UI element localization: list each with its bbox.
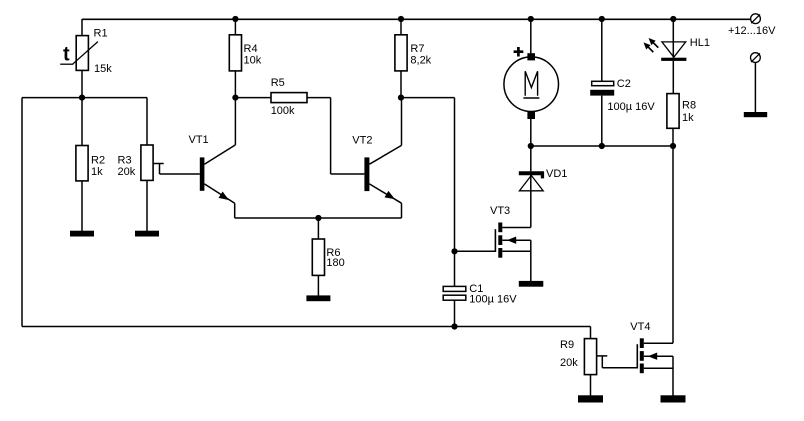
wire VD1 top bbox=[530, 146, 532, 171]
resistor R4 body bbox=[229, 35, 241, 71]
wire VT1 collector diagonal bbox=[204, 145, 235, 164]
terminal ground circle bbox=[751, 53, 761, 63]
wire VD1 bottom to VT3 drain bbox=[530, 173, 532, 228]
wire VT1 emitter vertical bbox=[234, 203, 236, 218]
node emitters R6 bbox=[315, 215, 321, 221]
svg-text:R8: R8 bbox=[682, 100, 696, 112]
transistor VT4 channel bottom segment bbox=[640, 364, 644, 374]
wire VT4 substrate stub bbox=[644, 355, 673, 357]
wire VT3 drain stub bbox=[502, 227, 531, 229]
resistor R5 body bbox=[271, 93, 307, 103]
svg-text:1k: 1k bbox=[91, 166, 103, 178]
svg-text:VT3: VT3 bbox=[490, 205, 510, 217]
node R7 top rail bbox=[398, 16, 404, 22]
wire VT2 emitter vertical bbox=[401, 203, 403, 218]
wire ground terminal lead bbox=[754, 63, 756, 113]
svg-text:t: t bbox=[63, 44, 70, 66]
LED HL1 emission arrow lower bbox=[644, 42, 654, 52]
svg-text:+12...16V: +12...16V bbox=[728, 25, 776, 37]
wire VT2 emitter diagonal bbox=[369, 184, 401, 203]
transistor VT1 base bar bbox=[200, 157, 205, 190]
wire R8 bottom bbox=[672, 128, 674, 146]
wire R9 wiper to VT4 gate bbox=[602, 367, 638, 369]
wire R6 top bbox=[317, 218, 319, 239]
transistor VT3 substrate arrow bbox=[507, 237, 516, 244]
ground VT4 source bbox=[661, 395, 686, 402]
svg-text:20k: 20k bbox=[560, 357, 578, 369]
capacitor C1 bottom plate bbox=[443, 295, 466, 300]
capacitor C2 top plate (positive) bbox=[592, 81, 614, 85]
wire emitters common line bbox=[235, 217, 402, 219]
motor M1 circle bbox=[504, 57, 559, 112]
wire bottom rail corner down to R9 bbox=[590, 327, 592, 339]
wire R5 right bbox=[307, 97, 331, 99]
wire VT3 source stub bbox=[502, 250, 531, 252]
wire R7 bottom bbox=[400, 71, 402, 98]
node R4 bottom bbox=[232, 95, 238, 101]
svg-text:C2: C2 bbox=[617, 78, 631, 90]
wire VT3 source down to ground bbox=[530, 240, 532, 281]
svg-text:R7: R7 bbox=[410, 43, 424, 55]
ground R3 bbox=[135, 231, 159, 237]
wire C2 top bbox=[601, 19, 603, 81]
wire VT1 base bbox=[160, 173, 200, 175]
wire HL1 top bbox=[672, 19, 674, 58]
svg-text:VT2: VT2 bbox=[352, 134, 372, 146]
R3 wiper tick bbox=[153, 163, 164, 165]
wire R5 down to VT2 base bbox=[330, 98, 332, 174]
terminal +12..16V circle bbox=[751, 14, 761, 24]
wire R9 top stub bbox=[590, 338, 592, 340]
wire R9 bottom bbox=[590, 375, 592, 396]
node R1 bottom divider bbox=[79, 95, 85, 101]
wire VT1 emitter diagonal bbox=[204, 184, 234, 203]
node HL1 top rail bbox=[670, 16, 676, 22]
wire VT4 drain vertical bbox=[672, 146, 674, 343]
svg-text:R3: R3 bbox=[118, 154, 132, 166]
resistor R8 body bbox=[667, 94, 679, 129]
resistor R7 body bbox=[395, 35, 407, 71]
ground VT3 source bbox=[519, 281, 544, 287]
transistor VT1 emitter arrow bbox=[219, 192, 230, 201]
node R7 bottom bbox=[398, 95, 404, 101]
diode VD1 zener cathode bar bbox=[519, 171, 544, 178]
LED HL1 cathode bar bbox=[661, 58, 686, 61]
svg-text:20k: 20k bbox=[118, 166, 136, 178]
svg-text:100µ 16V: 100µ 16V bbox=[469, 294, 517, 306]
wire R7 top bbox=[400, 19, 402, 35]
capacitor C2 bottom plate bbox=[590, 90, 614, 96]
wire left side vertical bbox=[21, 98, 23, 327]
wire R4 node to R5 left bbox=[235, 97, 271, 99]
wire mid rail motor to VT4 bbox=[531, 145, 673, 147]
R3 wiper drop bbox=[159, 164, 161, 175]
transistor VT4 channel mid segment bbox=[640, 351, 644, 361]
transistor VT2 base bar bbox=[364, 157, 369, 191]
wire R3 top bbox=[146, 98, 148, 145]
wire R1 bottom to node bbox=[81, 70, 83, 97]
resistor R6 body bbox=[312, 239, 324, 275]
svg-text:R4: R4 bbox=[244, 43, 258, 55]
wire VT1 collector vertical bbox=[234, 98, 236, 145]
svg-text:R5: R5 bbox=[271, 77, 285, 89]
wire motor top bbox=[530, 19, 532, 53]
svg-text:VT4: VT4 bbox=[630, 321, 650, 333]
wire R6 bottom bbox=[317, 275, 319, 295]
node motor top rail bbox=[528, 16, 534, 22]
wire R3 bottom bbox=[146, 180, 148, 231]
node C2 bottom rail bbox=[599, 143, 605, 149]
node motor bottom rail bbox=[528, 143, 534, 149]
svg-text:R1: R1 bbox=[94, 28, 108, 40]
wire VT4 drain stub bbox=[644, 342, 673, 344]
thermistor foot line bbox=[60, 63, 73, 65]
transistor VT3 channel bottom segment bbox=[498, 248, 502, 258]
motor polarity plus sign bbox=[514, 47, 524, 57]
wire HL1 to R8 bbox=[672, 61, 674, 94]
svg-text:100k: 100k bbox=[271, 105, 295, 117]
wire bottom long rail bbox=[22, 326, 591, 328]
svg-text:VD1: VD1 bbox=[546, 168, 567, 180]
node VT3 gate C1 bbox=[451, 248, 457, 254]
wire R2 bottom bbox=[81, 181, 83, 231]
wire VT3 gate connection bbox=[455, 250, 497, 252]
node C2 top rail bbox=[599, 16, 605, 22]
svg-text:8,2k: 8,2k bbox=[410, 54, 431, 66]
ground R6 bbox=[306, 295, 330, 301]
wire R4 bottom bbox=[234, 71, 236, 98]
svg-text:180: 180 bbox=[326, 257, 344, 269]
resistor R3 body (potentiometer) bbox=[141, 145, 153, 180]
transistor VT4 gate bar bbox=[636, 344, 638, 368]
transistor VT4 channel top segment bbox=[640, 338, 644, 348]
wire top supply rail bbox=[82, 18, 751, 20]
capacitor C1 top plate bbox=[443, 286, 466, 291]
svg-text:1k: 1k bbox=[682, 112, 694, 124]
ground R9 bbox=[578, 395, 603, 402]
wire VT2 collector diagonal bbox=[369, 145, 401, 164]
transistor VT3 channel mid segment bbox=[498, 235, 502, 245]
resistor R9 body (potentiometer) bbox=[584, 339, 596, 375]
R9 wiper drop bbox=[601, 356, 603, 368]
wire to VT2 base bbox=[331, 173, 365, 175]
svg-text:100µ 16V: 100µ 16V bbox=[607, 101, 655, 113]
R9 wiper tick bbox=[597, 355, 608, 357]
wire node line R2/R3 tops bbox=[22, 97, 147, 99]
wire R1 top bbox=[81, 19, 83, 36]
motor M letter bbox=[525, 71, 537, 96]
wire VT4 source stub bbox=[644, 367, 673, 369]
svg-text:15k: 15k bbox=[94, 63, 112, 75]
node C1 bottom rail bbox=[451, 323, 457, 329]
node R8 bottom rail bbox=[670, 143, 676, 149]
wire R2 top bbox=[81, 98, 83, 146]
motor top terminal square bbox=[527, 53, 535, 60]
node R4 top rail bbox=[232, 16, 238, 22]
wire C1 bottom bbox=[454, 300, 456, 326]
motor M underline bbox=[523, 97, 539, 99]
wire C2 bottom bbox=[601, 96, 603, 146]
wire VT2 collector vertical bbox=[401, 98, 403, 146]
svg-text:R9: R9 bbox=[560, 339, 574, 351]
resistor R2 body bbox=[76, 146, 88, 181]
motor bottom terminal square bbox=[527, 112, 535, 119]
svg-text:10k: 10k bbox=[244, 54, 262, 66]
svg-text:R2: R2 bbox=[91, 154, 105, 166]
transistor VT3 gate bar bbox=[494, 229, 496, 252]
ground R2 bbox=[70, 231, 94, 237]
wire R4 top bbox=[234, 19, 236, 35]
transistor VT2 emitter arrow bbox=[385, 191, 396, 199]
resistor R1 body (thermistor) bbox=[76, 36, 88, 71]
wire R7 node right bbox=[401, 97, 455, 99]
thermistor diagonal stroke bbox=[73, 42, 98, 65]
svg-text:VT1: VT1 bbox=[189, 134, 209, 146]
transistor VT3 channel top segment bbox=[498, 223, 502, 233]
wire VT4 source down to ground bbox=[672, 356, 674, 396]
ground supply terminal bbox=[744, 112, 767, 117]
wire VT3 substrate stub bbox=[502, 239, 531, 241]
LED HL1 triangle bbox=[662, 42, 686, 57]
LED HL1 emission arrow upper bbox=[649, 38, 659, 48]
wire down to VT3 gate node bbox=[454, 98, 456, 287]
diode VD1 triangle bbox=[519, 175, 543, 190]
wire motor bottom bbox=[530, 119, 532, 146]
svg-text:HL1: HL1 bbox=[690, 37, 710, 49]
transistor VT4 substrate arrow bbox=[648, 353, 657, 360]
